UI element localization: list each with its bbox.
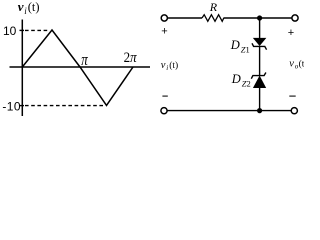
svg-text:π: π — [81, 52, 88, 70]
svg-text:+: + — [161, 25, 167, 37]
svg-text:v: v — [289, 58, 294, 69]
svg-text:v: v — [161, 60, 166, 71]
svg-text:D: D — [230, 38, 240, 52]
svg-text:+: + — [288, 27, 294, 39]
svg-text:Z1: Z1 — [241, 44, 250, 54]
svg-text:(t): (t) — [28, 0, 40, 14]
svg-text:v: v — [18, 0, 24, 14]
svg-text:10: 10 — [3, 24, 17, 38]
svg-text:(t): (t) — [299, 58, 304, 69]
svg-text:R: R — [209, 0, 218, 14]
svg-text:i: i — [166, 64, 168, 72]
svg-text:-10: -10 — [2, 100, 21, 114]
svg-text:(t): (t) — [169, 60, 178, 71]
svg-text:2π: 2π — [124, 49, 138, 65]
svg-text:Z2: Z2 — [242, 78, 251, 88]
svg-text:D: D — [231, 72, 241, 86]
